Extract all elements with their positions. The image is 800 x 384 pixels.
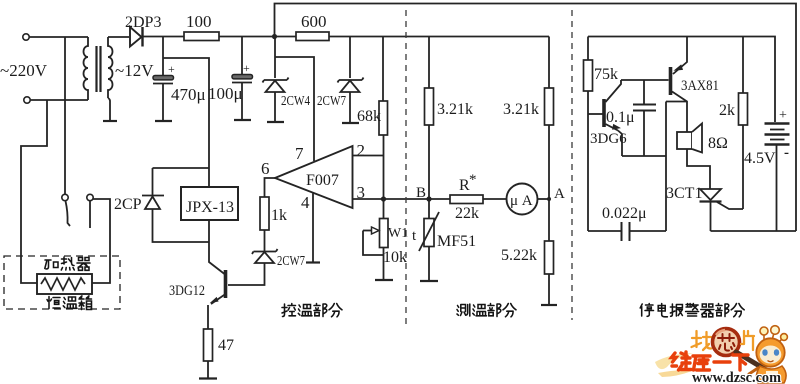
svg-text:2CW7: 2CW7 — [317, 94, 346, 109]
wire rail R100 to R600 — [219, 36, 296, 38]
resistor 2k lead — [742, 37, 744, 94]
wire alarm bottom rail — [711, 230, 797, 232]
resistor 75k — [584, 60, 593, 91]
watermark mascot eyes — [762, 349, 767, 356]
relay contact right — [87, 194, 93, 200]
svg-text:+: + — [243, 61, 250, 75]
resistor R* 22k — [450, 195, 483, 204]
svg-text:2DP3: 2DP3 — [125, 14, 161, 31]
svg-text:68k: 68k — [357, 108, 381, 125]
svg-text:75k: 75k — [594, 66, 618, 83]
wire pin2 — [353, 155, 384, 157]
wire Q3 collector — [672, 92, 687, 133]
svg-text:+: + — [168, 62, 175, 76]
svg-text:www.dzsc.com: www.dzsc.com — [692, 370, 781, 384]
svg-text:3.21k: 3.21k — [437, 101, 473, 118]
capacitor 0.1u bottom lead — [643, 111, 645, 156]
transformer T primary — [83, 37, 88, 100]
wire Q3 emitter from rail — [673, 37, 687, 75]
svg-text:100: 100 — [186, 12, 212, 31]
wire 2CP anode down — [153, 209, 210, 242]
capacitor C2 ground lead — [241, 83, 243, 120]
capacitor C2 100u — [232, 75, 253, 79]
resistor 600 — [296, 32, 329, 41]
battery 4.5V — [765, 122, 790, 124]
svg-text:B: B — [416, 185, 426, 201]
node pin3/W1 — [381, 196, 386, 201]
svg-text:~220V: ~220V — [0, 61, 48, 80]
svg-text:μ A: μ A — [510, 193, 533, 209]
wire osc loop bottom right — [630, 230, 667, 232]
transformer secondary ground lead — [108, 98, 110, 121]
wire Q2 emitter — [606, 124, 619, 131]
heater box — [37, 274, 92, 294]
transformer core — [97, 46, 101, 92]
label section measure 测温部分 — [457, 304, 516, 317]
wire meter to node A — [538, 198, 550, 200]
node B — [426, 196, 431, 201]
ground bar MF51 — [420, 280, 438, 282]
svg-text:W1: W1 — [388, 226, 408, 241]
svg-text:2CW4: 2CW4 — [281, 94, 310, 109]
capacitor 0.1u — [633, 105, 656, 111]
svg-text:~12V: ~12V — [115, 61, 154, 80]
wire 22k to meter — [483, 198, 507, 200]
svg-text:5.22k: 5.22k — [501, 247, 537, 264]
transformer T secondary — [108, 37, 113, 98]
wire osc loop bottom left — [588, 230, 621, 232]
watermark magnifier ring — [713, 329, 740, 356]
wire mains bottom — [31, 99, 89, 101]
wire 68k to pin2 node — [383, 135, 385, 199]
wire base rail of Q3 — [621, 79, 669, 81]
ground bar C1 — [155, 120, 172, 122]
wire speaker to SCR anode — [687, 149, 710, 189]
thyristor 3CT1 — [700, 189, 721, 200]
svg-text:0.1μ: 0.1μ — [606, 109, 635, 126]
transistor Q3 3AX81 — [669, 67, 673, 95]
ground bar secondary — [103, 120, 117, 122]
resistor 1k — [260, 197, 269, 230]
potentiometer W1 — [383, 199, 385, 220]
wire bridge right arm top — [548, 37, 550, 89]
wire rail R600 to bridge right — [329, 36, 549, 38]
svg-text:3AX81: 3AX81 — [681, 78, 719, 94]
svg-text:2: 2 — [357, 141, 366, 160]
diode 2CP lead — [152, 168, 154, 195]
capacitor C1 470u lead — [162, 37, 164, 77]
capacitor 0.022u — [622, 222, 630, 241]
zener 2CW7b — [252, 249, 278, 263]
relay contact right stub — [89, 201, 91, 228]
terminal top — [23, 34, 29, 40]
wire Q2 base — [588, 113, 603, 115]
svg-text:47: 47 — [218, 337, 234, 354]
heater element zigzag — [41, 278, 85, 290]
ground bar 47 — [199, 377, 217, 379]
resistor 5.22k — [545, 241, 554, 274]
op-amp U1 F007 — [275, 146, 353, 208]
svg-text:4: 4 — [301, 193, 310, 212]
wire SCR gate — [717, 202, 743, 209]
svg-text:A: A — [554, 186, 565, 202]
resistor 47 — [204, 329, 213, 361]
svg-text:*: * — [469, 172, 477, 188]
transistor Q2 3DG6 — [602, 99, 606, 127]
label thermostat box 恒温箱 — [47, 296, 92, 310]
wire Q2 collector — [606, 80, 622, 102]
ground bar W1 — [375, 279, 393, 281]
wire W1 to ground — [383, 248, 385, 281]
wire relay top branch — [153, 167, 210, 169]
wire op-amp V+ branch — [275, 57, 314, 161]
wire to node B — [428, 125, 430, 220]
ground bar 5.22k — [541, 304, 557, 306]
zener 2CW4 lead — [274, 37, 276, 79]
watermark swoosh — [655, 353, 693, 369]
wire zener to Q1 base — [228, 263, 265, 285]
resistor 68k lead — [382, 37, 384, 102]
wire relay supply branch — [163, 58, 209, 187]
wire 47 to ground — [207, 361, 209, 378]
wire pin4 — [312, 194, 314, 263]
node A — [547, 197, 551, 201]
wire bridge left arm top — [428, 37, 430, 89]
svg-text:JPX-13: JPX-13 — [186, 199, 234, 216]
wire feedback vertical — [665, 102, 667, 232]
wire mains jog to heater — [21, 100, 47, 283]
wire secondary to diode — [108, 36, 129, 38]
wire relay bottom to Q1 collector — [209, 220, 225, 274]
svg-text:8Ω: 8Ω — [708, 135, 728, 152]
svg-text:7: 7 — [295, 144, 304, 163]
relay contact blade — [66, 201, 71, 226]
svg-text:3CT1: 3CT1 — [666, 185, 702, 202]
svg-text:2CP: 2CP — [114, 196, 142, 213]
ground bar pin4 — [306, 261, 320, 263]
resistor 2k — [739, 93, 748, 125]
svg-text:3DG12: 3DG12 — [169, 283, 205, 299]
watermark pian 片 — [741, 331, 754, 350]
capacitor 0.1u lead — [643, 80, 645, 104]
relay JPX-13 — [181, 187, 238, 220]
wire contact to heater — [92, 199, 110, 283]
watermark weiku yixia 维库一下 — [672, 352, 749, 370]
resistor 68k — [379, 101, 388, 135]
label section control 控温部分 — [282, 304, 342, 317]
diode 2DP3 — [130, 27, 142, 47]
wire diode to R100 — [142, 36, 184, 38]
watermark mascot crown — [760, 326, 787, 342]
wire top supply rail — [275, 4, 797, 232]
section divider dashed 2 — [571, 10, 573, 320]
wire pin3 to bridge B — [353, 198, 451, 200]
svg-text:MF51: MF51 — [437, 233, 476, 250]
watermark mascot head — [756, 338, 784, 366]
wire emitter node — [622, 155, 666, 157]
svg-text:3.21k: 3.21k — [503, 101, 539, 118]
zener 2CW7 lead — [349, 37, 351, 79]
svg-text:0.022μ: 0.022μ — [602, 205, 647, 222]
wire SCR cathode — [710, 202, 712, 232]
watermark xin 芯 — [718, 334, 735, 351]
wire 5.22k ground — [548, 274, 550, 305]
wire op-amp output pin6 — [265, 178, 276, 197]
svg-text:+: + — [779, 108, 787, 123]
watermark mascot body — [756, 366, 786, 383]
wire Q1 emitter — [211, 294, 226, 304]
meter uA — [507, 184, 538, 215]
wire MF51 to ground — [428, 247, 430, 282]
wire mains top — [30, 36, 89, 38]
svg-text:1k: 1k — [271, 207, 287, 224]
svg-text:100μ: 100μ — [208, 84, 243, 103]
resistor 100 — [184, 32, 219, 41]
svg-text:6: 6 — [261, 159, 270, 178]
svg-text:22k: 22k — [455, 205, 479, 222]
diode 2CP — [142, 196, 164, 210]
speaker 8ohm — [677, 132, 692, 149]
thermostat dashed box — [4, 256, 120, 309]
resistor R4 3.21k right — [545, 88, 554, 125]
wire mains drop to relay contact — [64, 37, 66, 194]
capacitor C1 470u — [153, 76, 174, 80]
svg-text:470μ: 470μ — [171, 85, 206, 104]
label section alarm 停电报警器部分 — [640, 304, 744, 317]
label heater 加热器 — [45, 257, 90, 270]
capacitor C2 100u lead — [241, 37, 243, 76]
watermark zhao 找 — [692, 331, 712, 350]
thermistor MF51 — [424, 219, 434, 247]
wire to node A — [548, 125, 550, 241]
watermark magnifier handle — [736, 352, 768, 371]
battery bottom lead — [776, 145, 778, 231]
wire alarm section top rail — [588, 37, 775, 123]
svg-text:2k: 2k — [719, 102, 735, 119]
resistor R3 3.21k left — [425, 88, 434, 125]
ground bar C2 — [234, 119, 251, 121]
svg-text:F007: F007 — [306, 172, 339, 189]
section divider dashed 1 — [405, 10, 407, 326]
resistor 75k lead — [587, 37, 589, 61]
zener 2CW7 — [338, 78, 364, 93]
relay contact left — [62, 194, 68, 200]
wire 2k to gate — [742, 125, 744, 209]
svg-text:-: - — [784, 145, 789, 161]
svg-text:4.5V: 4.5V — [744, 150, 776, 167]
terminal bottom — [24, 97, 30, 103]
capacitor C1 ground lead — [162, 84, 164, 121]
wire 75k down to osc loop — [587, 91, 589, 231]
svg-text:10k: 10k — [383, 249, 407, 266]
svg-text:600: 600 — [301, 12, 327, 31]
svg-text:2CW7: 2CW7 — [277, 254, 305, 269]
wire 1k to zener — [264, 230, 266, 251]
zener 2CW4 — [263, 78, 289, 93]
transistor Q1 3DG12 — [224, 270, 228, 298]
node main rail junction — [272, 34, 277, 39]
